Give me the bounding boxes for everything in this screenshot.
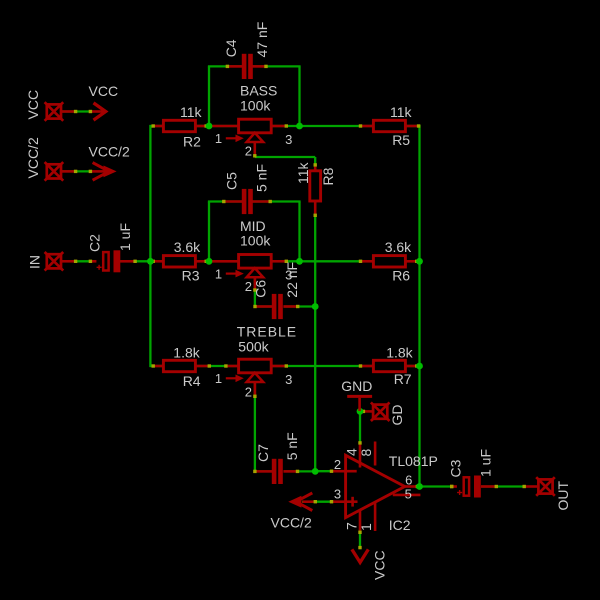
node A junction R2/BASS/C4	[206, 123, 213, 130]
port VCC/2	[47, 164, 61, 178]
svg-text:R7: R7	[394, 371, 412, 387]
wire row2 rail to R3	[150, 260, 163, 262]
node output junction	[416, 483, 423, 490]
pin C4 right	[252, 65, 264, 68]
svg-text:C3: C3	[447, 459, 463, 477]
pin MID wiper	[254, 277, 257, 289]
svg-text:2: 2	[245, 144, 252, 159]
pin C6 right	[283, 305, 296, 308]
resistor R6	[373, 256, 405, 267]
op-amp U1 triangle	[346, 455, 405, 517]
node R7 output rail junction	[416, 363, 423, 370]
wire C3 to OUT port	[481, 485, 526, 487]
pin op-amp 6	[405, 485, 417, 488]
pin VCC/2 supply	[90, 170, 104, 173]
potentiometer MID arrow	[226, 273, 237, 275]
svg-text:R6: R6	[392, 268, 410, 284]
svg-text:1: 1	[358, 523, 374, 531]
pin GD port	[365, 410, 373, 413]
wire GND node to op-amp pin4	[359, 411, 361, 444]
wire C4 right drop	[298, 66, 300, 126]
wire op-amp output to C3	[420, 485, 454, 487]
pin C3 right	[481, 485, 495, 488]
svg-text:R8: R8	[320, 167, 336, 185]
capacitor C3	[464, 477, 469, 495]
wire C7 to node F	[284, 470, 316, 472]
resistor R3	[163, 256, 195, 267]
wire C2 to rail junction	[120, 260, 150, 262]
wire R5 to right rail	[405, 125, 419, 127]
resistor R2	[163, 120, 195, 131]
pin R4 left	[152, 365, 164, 368]
wire IN port to C2	[62, 260, 95, 262]
pin R2 left	[152, 125, 164, 128]
svg-text:C6: C6	[252, 280, 268, 298]
pin C3 out side	[450, 485, 453, 488]
svg-text:C5: C5	[224, 172, 240, 190]
pin TREBLE wiper	[254, 382, 257, 395]
wire R2 to node A	[195, 125, 209, 127]
svg-text:VCC/2: VCC/2	[89, 143, 130, 159]
pin BASS wiper	[254, 142, 257, 154]
svg-text:1: 1	[215, 266, 222, 281]
svg-text:VCC/2: VCC/2	[25, 137, 41, 178]
pin op-amp 4	[359, 444, 362, 468]
pin VCC/2 supply at op-amp	[302, 500, 314, 503]
pin R7 right	[405, 365, 417, 368]
pin op-amp 7	[359, 510, 362, 531]
svg-text:1.8k: 1.8k	[173, 345, 200, 361]
pin op-amp 5	[393, 494, 421, 497]
wire left rail	[149, 125, 151, 367]
svg-text:3: 3	[285, 267, 292, 282]
node B junction BASS3/C4/R5	[296, 123, 303, 130]
capacitor C6	[272, 294, 277, 319]
capacitor C7	[272, 459, 277, 484]
pin op-amp 8	[374, 442, 377, 466]
pin op-amp 2	[333, 470, 357, 473]
svg-text:VCC: VCC	[371, 550, 387, 580]
pin C5 right	[252, 200, 268, 203]
svg-text:VCC: VCC	[89, 83, 119, 99]
svg-text:IN: IN	[26, 255, 42, 269]
pin C7 right	[283, 470, 296, 473]
pin C5 left	[225, 200, 242, 203]
node F junction C7/virtual-gnd	[312, 468, 319, 475]
pin IN port	[61, 260, 74, 263]
supply VCC arrow	[94, 103, 106, 120]
potentiometer BASS arrow	[226, 137, 237, 139]
wire C5 left drop	[208, 202, 210, 262]
svg-text:4: 4	[343, 448, 359, 456]
ground symbol GND	[347, 395, 372, 398]
pin R3 left	[152, 260, 164, 263]
svg-text:TREBLE: TREBLE	[237, 324, 297, 340]
wire VCC/2 supply to op-amp pin3	[302, 501, 333, 503]
svg-text:11k: 11k	[180, 104, 203, 120]
svg-text:2: 2	[245, 279, 252, 294]
pin C3 left	[452, 485, 457, 488]
port OUT	[538, 479, 552, 493]
supply VCC/2 arrow at op-amp	[296, 493, 312, 511]
pin R5 right	[405, 125, 417, 128]
pin TREBLE 3	[271, 365, 285, 368]
svg-text:VCC/2: VCC/2	[271, 514, 312, 530]
pin C2 left	[92, 260, 97, 263]
capacitor C5	[242, 189, 247, 214]
pin BASS 1	[212, 125, 239, 128]
svg-text:R4: R4	[183, 373, 201, 389]
svg-text:11k: 11k	[390, 104, 413, 120]
pin OUT port	[526, 485, 539, 488]
pin op-amp 1	[374, 502, 377, 531]
wire node C to MID pin1	[209, 260, 239, 262]
pin C7 left	[256, 470, 272, 473]
wire R6 to right rail	[405, 260, 419, 262]
pin R3 right	[195, 260, 206, 263]
wire BASS wiper to R8	[254, 142, 256, 157]
pin C6 left	[256, 305, 272, 308]
svg-text:C7: C7	[255, 444, 271, 462]
svg-text:TL081P: TL081P	[389, 453, 438, 469]
svg-text:5 nF: 5 nF	[284, 432, 300, 460]
svg-text:5: 5	[405, 487, 412, 502]
svg-text:2: 2	[245, 384, 252, 399]
port GD	[373, 405, 387, 419]
wire node A to BASS pin1	[209, 125, 239, 127]
svg-text:47 nF: 47 nF	[254, 22, 270, 58]
wire C5 right drop	[298, 202, 300, 262]
resistor R5	[373, 120, 405, 131]
wire MID wiper to C6	[254, 277, 256, 307]
wire node D to R6	[300, 260, 374, 262]
pin VCC port	[61, 110, 74, 113]
svg-text:1: 1	[215, 131, 222, 146]
pin VCC at op-amp pin7	[358, 546, 361, 549]
svg-text:VCC: VCC	[25, 90, 41, 120]
resistor R7	[373, 360, 405, 371]
wire R4 to TREBLE pin1	[195, 365, 238, 367]
resistor R8	[310, 171, 321, 201]
wire row3 rail to R4	[150, 365, 163, 367]
pin R8 bottom	[314, 201, 317, 214]
svg-text:100k: 100k	[240, 97, 271, 113]
wire C4 left drop	[208, 66, 210, 126]
wire node F to op-amp pin2	[315, 470, 333, 472]
wire TREBLE wiper to C7	[254, 382, 256, 471]
wire VCC port to arrow	[62, 110, 92, 112]
svg-text:1.8k: 1.8k	[386, 344, 413, 360]
node C junction R3/MID/C5	[206, 258, 213, 265]
capacitor C4	[242, 54, 247, 79]
svg-text:OUT: OUT	[555, 481, 571, 511]
svg-text:1 uF: 1 uF	[478, 449, 494, 477]
svg-text:IC2: IC2	[389, 517, 411, 533]
potentiometer MID	[239, 255, 272, 269]
pin R6 right	[405, 260, 417, 263]
supply VCC/2 arrow	[93, 163, 109, 181]
wire R7 to right rail	[405, 365, 419, 367]
svg-text:3: 3	[334, 487, 341, 502]
pin BASS 3	[271, 125, 285, 128]
potentiometer BASS	[239, 119, 272, 133]
svg-text:500k: 500k	[238, 339, 269, 355]
wire C6 node to C7 node	[314, 307, 316, 472]
pin R4 right	[195, 365, 207, 368]
svg-text:5 nF: 5 nF	[254, 164, 270, 192]
pin C4 left	[229, 65, 243, 68]
node GND junction	[357, 408, 364, 415]
wire TREBLE pin3 to R7	[271, 365, 373, 367]
potentiometer TREBLE	[239, 359, 272, 373]
svg-text:C4: C4	[223, 39, 239, 57]
wire op-amp pin7 to VCC	[359, 529, 361, 549]
svg-text:8: 8	[358, 449, 374, 457]
svg-text:R5: R5	[392, 132, 410, 148]
svg-text:3: 3	[285, 372, 292, 387]
capacitor C2	[103, 252, 108, 270]
svg-text:GD: GD	[389, 405, 405, 426]
svg-text:6: 6	[405, 473, 412, 488]
svg-text:11k: 11k	[295, 161, 311, 184]
node IN junction rail/C2/R3	[147, 258, 154, 265]
wire MID pin3 to node D	[271, 260, 299, 262]
svg-text:3: 3	[285, 132, 292, 147]
port IN	[47, 254, 61, 268]
pin R6 left	[362, 260, 374, 263]
pin VCC/2 port	[61, 170, 74, 173]
svg-text:GND: GND	[341, 378, 372, 394]
pin op-amp 3 with plus	[333, 500, 358, 503]
resistor R4	[163, 360, 195, 371]
wire BASS pin3 to node B	[271, 125, 299, 127]
svg-text:3.6k: 3.6k	[385, 239, 412, 255]
wire R8 bottom to C6 node	[314, 202, 316, 307]
wire node B to R5	[300, 125, 374, 127]
svg-text:1 uF: 1 uF	[117, 223, 133, 251]
pin R2 right	[195, 125, 206, 128]
svg-text:1: 1	[215, 371, 222, 386]
pin MID 3	[271, 260, 285, 263]
pin C2 right	[120, 260, 133, 263]
wire R3 to node C	[195, 260, 209, 262]
pin R5 left	[362, 125, 374, 128]
wire C6 to node E	[284, 305, 316, 307]
node E junction C6/R8	[312, 303, 319, 310]
potentiometer TREBLE arrow	[226, 377, 237, 379]
pin TREBLE 1	[227, 365, 238, 368]
pin VCC supply	[90, 110, 104, 113]
svg-text:2: 2	[334, 457, 341, 472]
pin R7 left	[362, 365, 374, 368]
svg-text:3.6k: 3.6k	[174, 239, 201, 255]
port VCC	[47, 104, 61, 118]
node R6 output rail junction	[416, 258, 423, 265]
svg-text:100k: 100k	[240, 232, 271, 248]
supply VCC arrow at op-amp	[352, 549, 368, 562]
pin R8 top	[314, 166, 317, 171]
pin MID 1	[212, 260, 239, 263]
svg-text:R2: R2	[183, 133, 201, 149]
wire VCC/2 port to arrow	[62, 170, 92, 172]
svg-text:BASS: BASS	[240, 82, 277, 98]
wire right rail	[418, 125, 420, 487]
svg-text:C2: C2	[87, 234, 103, 252]
node D junction MID3/C5/R6	[296, 258, 303, 265]
svg-text:R3: R3	[182, 268, 200, 284]
wire row1 rail to R2	[150, 125, 163, 127]
